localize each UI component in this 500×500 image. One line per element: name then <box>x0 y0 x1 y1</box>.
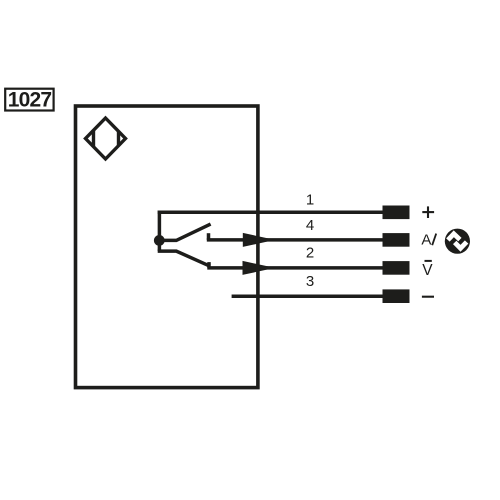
terminal block pin 4 <box>383 233 410 247</box>
arrow on wire 4 <box>243 233 275 247</box>
lower branch to pin 2 contact <box>158 251 210 266</box>
terminal block pin 3 <box>383 289 410 303</box>
terminal block pin 1 <box>383 206 410 220</box>
wire 1 (to terminal 1) <box>158 211 384 215</box>
node (common junction) <box>154 235 165 246</box>
wire: vertical riser from node <box>158 211 162 252</box>
svg-text:1: 1 <box>306 191 314 208</box>
contact tick pin 2 <box>207 262 211 268</box>
programmable output icon (circle with up/down chevrons) <box>445 229 470 254</box>
svg-text:4: 4 <box>306 217 314 234</box>
figure number box 1027 <box>5 88 53 111</box>
arrow on wire 2 <box>243 261 276 275</box>
svg-text:2: 2 <box>306 244 314 261</box>
svg-text:1027: 1027 <box>8 88 52 111</box>
terminal block pin 2 <box>383 261 410 275</box>
label A/ (analog output) <box>421 231 436 248</box>
wire 2 <box>207 266 384 270</box>
wire 4 <box>207 238 384 242</box>
proximity sensor symbol (diamond) <box>86 118 126 159</box>
svg-text:3: 3 <box>306 273 314 290</box>
contact tick pin 4 <box>207 233 211 240</box>
label V-bar (voltage output) <box>422 261 433 279</box>
svg-text:V: V <box>422 262 433 279</box>
svg-text:A: A <box>421 231 431 248</box>
label + (supply plus) <box>422 206 434 218</box>
wire 3 <box>232 294 384 298</box>
switch lever (normally open contact toward pin 4) <box>160 224 211 240</box>
label minus (supply minus) <box>422 296 434 298</box>
device outline <box>76 106 258 388</box>
